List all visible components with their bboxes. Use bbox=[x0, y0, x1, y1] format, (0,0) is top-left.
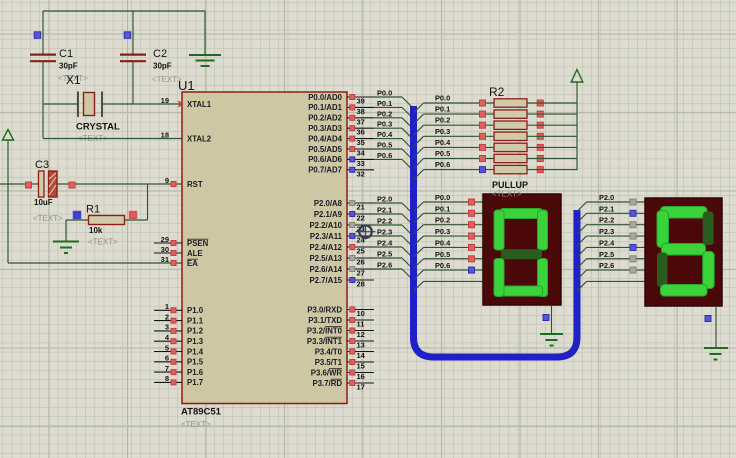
wire P2.5 bus to DS2 bbox=[577, 250, 645, 269]
U1 pin 23 (P2.2/A10) bbox=[309, 221, 374, 234]
svg-text:P2.4/A12: P2.4/A12 bbox=[309, 243, 342, 252]
DS1 segment c bbox=[538, 259, 548, 297]
svg-text:<TEXT>: <TEXT> bbox=[88, 238, 118, 247]
svg-text:P2.1/A9: P2.1/A9 bbox=[314, 210, 343, 219]
wire P2.2 bus to DS2 bbox=[577, 216, 645, 235]
svg-text:37: 37 bbox=[357, 117, 365, 126]
capacitor C2 (30pF) bbox=[120, 48, 182, 84]
wire R2 row 1 to VCC bbox=[527, 102, 577, 104]
capacitor C1 (30pF) bbox=[30, 48, 88, 83]
wire R1 to ground bbox=[66, 220, 89, 241]
svg-text:P2.0/A8: P2.0/A8 bbox=[314, 199, 343, 208]
ground (below DS2) bbox=[704, 306, 728, 360]
svg-text:C1: C1 bbox=[59, 48, 73, 60]
svg-text:P3.6/WR: P3.6/WR bbox=[311, 368, 343, 377]
svg-text:EA: EA bbox=[187, 259, 198, 268]
U1 pin 35 (P0.4/AD4) bbox=[308, 134, 374, 147]
svg-text:P2.0: P2.0 bbox=[377, 195, 392, 204]
7-segment display DS1 body bbox=[483, 194, 561, 305]
label R2 TEXT (over DS1) bbox=[492, 190, 522, 199]
cursor crosshair bbox=[356, 225, 376, 240]
pin square R2 row 2 left bbox=[480, 111, 486, 117]
svg-text:6: 6 bbox=[165, 354, 169, 363]
wire P2.6 U1 to bus bbox=[374, 261, 412, 280]
svg-text:P1.7: P1.7 bbox=[187, 378, 203, 387]
wire C2 branch bbox=[132, 11, 134, 104]
U1 pin 24 (P2.3/A11) bbox=[310, 232, 374, 245]
pin square R2 row 3 left bbox=[480, 122, 486, 128]
svg-text:11: 11 bbox=[357, 320, 365, 329]
svg-text:2: 2 bbox=[165, 312, 169, 321]
DS1 segment b bbox=[538, 210, 548, 250]
wire R2 row 7 to VCC bbox=[527, 169, 577, 171]
wire P2.4 bus to DS2 bbox=[577, 238, 645, 257]
wire RST tap to R1 bbox=[125, 184, 148, 220]
svg-text:31: 31 bbox=[161, 255, 169, 264]
svg-text:P3.5/T1: P3.5/T1 bbox=[315, 358, 343, 367]
U1 pin 3 (P1.2) bbox=[154, 323, 204, 336]
svg-text:27: 27 bbox=[357, 269, 365, 278]
wire P0.0 bus to R2 bbox=[414, 94, 495, 114]
wire P0.5 bus to DS1 bbox=[414, 250, 484, 269]
svg-text:17: 17 bbox=[357, 383, 365, 392]
svg-text:30: 30 bbox=[161, 245, 169, 254]
svg-text:P0.6: P0.6 bbox=[435, 261, 450, 270]
U1 pin 12 (P3.2/INT0) bbox=[307, 326, 374, 339]
svg-text:U1: U1 bbox=[178, 78, 195, 93]
bus (blue) bbox=[414, 106, 578, 357]
DS2 segment f bbox=[657, 211, 669, 248]
U1 pin 21 (P2.0/A8) bbox=[314, 199, 374, 212]
U1 pin 27 (P2.6/A14) bbox=[309, 265, 374, 278]
label AT89C51 bbox=[181, 407, 222, 418]
DS1 segment e bbox=[494, 259, 504, 297]
svg-text:P0.4/AD4: P0.4/AD4 bbox=[308, 134, 342, 143]
resistor R2 element 5 bbox=[494, 143, 527, 151]
wire P0.1 U1 to bus bbox=[374, 99, 412, 118]
U1 pin 1 (P1.0) bbox=[154, 302, 204, 315]
DS1 segment d bbox=[500, 286, 543, 296]
wire P0.0 bus to DS1 bbox=[414, 193, 484, 212]
svg-text:21: 21 bbox=[357, 203, 365, 212]
svg-text:PULLUP: PULLUP bbox=[492, 180, 528, 190]
label PULLUP bbox=[492, 180, 528, 190]
svg-text:P0.5/AD5: P0.5/AD5 bbox=[308, 145, 342, 154]
svg-text:P0.0: P0.0 bbox=[435, 193, 450, 202]
svg-text:P0.6: P0.6 bbox=[435, 160, 450, 169]
svg-text:9: 9 bbox=[165, 176, 169, 185]
svg-text:P0.4: P0.4 bbox=[435, 138, 451, 147]
U1 pin 18 (XTAL2) bbox=[161, 130, 212, 143]
svg-text:19: 19 bbox=[161, 96, 169, 105]
U1 pin 19 (XTAL1) bbox=[161, 96, 212, 109]
pin square R2 row 6 right bbox=[537, 156, 543, 162]
7-segment DS2 digit 5 bbox=[657, 207, 714, 297]
svg-text:P2.2/A10: P2.2/A10 bbox=[309, 221, 342, 230]
svg-text:<TEXT>: <TEXT> bbox=[33, 214, 63, 223]
resistor R2 element 2 bbox=[494, 110, 527, 118]
U1 pin 4 (P1.3) bbox=[154, 333, 204, 346]
svg-text:P2.5/A13: P2.5/A13 bbox=[309, 254, 342, 263]
wire P0.3 bus to DS1 bbox=[414, 227, 484, 246]
svg-text:P2.3/A11: P2.3/A11 bbox=[310, 232, 343, 241]
svg-text:C3: C3 bbox=[35, 159, 49, 171]
svg-text:P0.2: P0.2 bbox=[435, 116, 450, 125]
7-segment DS1 digit 0 bbox=[494, 209, 548, 297]
svg-text:14: 14 bbox=[357, 351, 366, 360]
U1 pin 33 (P0.6/AD6) bbox=[308, 155, 374, 168]
svg-text:32: 32 bbox=[357, 169, 365, 178]
wire VCC left vertical bbox=[7, 140, 9, 263]
svg-text:P2.3: P2.3 bbox=[377, 228, 392, 237]
wire XTAL1 net bbox=[43, 103, 182, 105]
wire P2.6 bus to DS2 bbox=[577, 261, 645, 280]
svg-text:R2: R2 bbox=[489, 85, 505, 99]
wire RST net bbox=[0, 183, 182, 185]
resistor R2 element 3 bbox=[494, 121, 527, 129]
IC U1 AT89C51 body bbox=[178, 78, 347, 404]
U1 pin 15 (P3.5/T1) bbox=[315, 358, 374, 371]
U1 pin 9 (RST) bbox=[165, 176, 203, 189]
svg-text:34: 34 bbox=[357, 149, 366, 158]
svg-text:10: 10 bbox=[357, 309, 365, 318]
svg-text:XTAL1: XTAL1 bbox=[187, 100, 212, 109]
pin square R1 right bbox=[129, 211, 138, 220]
wire P0.3 U1 to bus bbox=[374, 120, 412, 139]
capacitor C3 (10uF) bbox=[33, 159, 63, 223]
svg-text:XTAL2: XTAL2 bbox=[187, 134, 212, 143]
svg-text:P1.3: P1.3 bbox=[187, 337, 204, 346]
svg-text:3: 3 bbox=[165, 323, 169, 332]
7-segment display DS2 body bbox=[645, 198, 722, 306]
svg-text:P3.0/RXD: P3.0/RXD bbox=[307, 305, 342, 314]
wire top rail bbox=[43, 10, 205, 12]
wire P2.3 U1 to bus bbox=[374, 228, 412, 247]
pin square R2 row 1 right bbox=[537, 100, 543, 106]
svg-text:P2.3: P2.3 bbox=[599, 227, 614, 236]
wire P2.1 U1 to bus bbox=[374, 206, 412, 225]
svg-text:P0.3: P0.3 bbox=[435, 227, 450, 236]
svg-text:P0.0/AD0: P0.0/AD0 bbox=[308, 93, 342, 102]
pin square R2 row 1 left bbox=[480, 100, 486, 106]
wire R2 row 2 to VCC bbox=[527, 113, 577, 115]
wire R2 row 5 to VCC bbox=[527, 146, 577, 148]
svg-text:P0.2/AD2: P0.2/AD2 bbox=[308, 114, 342, 123]
U1 pin 7 (P1.6) bbox=[154, 364, 204, 377]
svg-text:P2.2: P2.2 bbox=[599, 216, 614, 225]
resistor R2 element 4 bbox=[494, 132, 527, 140]
U1 pin 8 (P1.7) bbox=[154, 374, 203, 387]
svg-text:P1.6: P1.6 bbox=[187, 368, 204, 377]
U1 pin 17 (P3.7/RD) bbox=[313, 379, 374, 392]
svg-text:P2.5: P2.5 bbox=[599, 250, 614, 259]
svg-text:5: 5 bbox=[165, 343, 169, 352]
crystal X1 bbox=[66, 73, 120, 143]
wire R2 row 4 to VCC bbox=[527, 135, 577, 137]
U1 pin 13 (P3.3/INT1) bbox=[307, 337, 374, 350]
svg-text:P2.4: P2.4 bbox=[377, 239, 393, 248]
wire P2.0 U1 to bus bbox=[374, 195, 412, 214]
U1 pin 28 (P2.7/A15) bbox=[309, 276, 374, 289]
svg-text:13: 13 bbox=[357, 341, 365, 350]
svg-text:P2.6: P2.6 bbox=[377, 261, 392, 270]
resistor R1 (10k) bbox=[86, 204, 125, 247]
wire P2.3 bus to DS2 bbox=[577, 227, 645, 246]
DS1 segment g bbox=[501, 249, 542, 259]
DS2 segment b bbox=[703, 212, 714, 246]
wire P0.5 U1 to bus bbox=[374, 141, 412, 160]
svg-text:P0.2: P0.2 bbox=[435, 216, 450, 225]
wire P2.4 U1 to bus bbox=[374, 239, 412, 258]
wire P0.6 U1 to bus bbox=[374, 151, 412, 170]
label R2 bbox=[489, 85, 505, 99]
svg-text:P0.5: P0.5 bbox=[377, 141, 392, 150]
wire P0.3 bus to R2 bbox=[414, 127, 495, 147]
svg-text:P2.1: P2.1 bbox=[377, 206, 392, 215]
wire P0.2 U1 to bus bbox=[374, 109, 412, 128]
svg-text:R1: R1 bbox=[86, 204, 100, 216]
U1 pin 14 (P3.4/T0) bbox=[315, 347, 374, 360]
U1 pin 25 (P2.4/A12) bbox=[309, 243, 374, 256]
svg-text:P2.1: P2.1 bbox=[599, 204, 614, 213]
svg-text:35: 35 bbox=[357, 138, 365, 147]
svg-text:28: 28 bbox=[357, 280, 365, 289]
pin square C3 left bbox=[26, 182, 32, 188]
svg-text:12: 12 bbox=[357, 330, 365, 339]
pin square C3 right bbox=[69, 182, 75, 188]
svg-text:P0.7/AD7: P0.7/AD7 bbox=[308, 166, 342, 175]
svg-text:P0.0: P0.0 bbox=[377, 89, 392, 98]
resistor R2 element 1 bbox=[494, 99, 527, 107]
U1 pin 31 (EA) bbox=[161, 255, 199, 268]
U1 pin 11 (P3.1/TXD) bbox=[308, 316, 374, 329]
DS2 segment e bbox=[657, 253, 668, 288]
svg-text:P2.4: P2.4 bbox=[599, 238, 615, 247]
wire R2 row 3 to VCC bbox=[527, 124, 577, 126]
svg-text:P2.6/A14: P2.6/A14 bbox=[309, 265, 342, 274]
svg-text:P0.5: P0.5 bbox=[435, 250, 450, 259]
svg-text:18: 18 bbox=[161, 130, 169, 139]
DS1 segment f bbox=[494, 210, 504, 250]
svg-text:<TEXT>: <TEXT> bbox=[181, 420, 211, 429]
svg-text:22: 22 bbox=[357, 214, 365, 223]
label U1 TEXT bbox=[181, 420, 211, 429]
U1 pin 29 (PSEN) bbox=[154, 235, 209, 248]
node below DS2 bbox=[705, 316, 711, 322]
svg-text:39: 39 bbox=[357, 97, 365, 106]
svg-text:P1.1: P1.1 bbox=[187, 316, 204, 325]
pin square R2 row 7 right bbox=[537, 167, 543, 173]
svg-text:P0.4: P0.4 bbox=[377, 130, 393, 139]
U1 pin 37 (P0.2/AD2) bbox=[308, 114, 374, 127]
svg-text:30pF: 30pF bbox=[153, 62, 172, 71]
svg-text:<TEXT>: <TEXT> bbox=[492, 190, 522, 199]
ground (below R1) bbox=[53, 242, 79, 254]
svg-text:P2.2: P2.2 bbox=[377, 217, 392, 226]
ground (top, crystal caps) bbox=[189, 11, 221, 66]
U1 pin 39 (P0.0/AD0) bbox=[308, 93, 374, 106]
svg-text:26: 26 bbox=[357, 258, 365, 267]
U1 pin 5 (P1.4) bbox=[154, 343, 204, 356]
pin square R2 row 6 left bbox=[480, 156, 486, 162]
U1 pin 30 (ALE) bbox=[154, 245, 203, 258]
svg-text:P0.3/AD3: P0.3/AD3 bbox=[308, 124, 342, 133]
svg-text:P0.1: P0.1 bbox=[435, 105, 450, 114]
svg-text:CRYSTAL: CRYSTAL bbox=[76, 122, 120, 133]
U1 pin 32 (P0.7/AD7) bbox=[308, 166, 374, 179]
wire P0.6 bus to DS1 bbox=[414, 261, 484, 280]
svg-text:P3.1/TXD: P3.1/TXD bbox=[308, 316, 342, 325]
wire P2.0 bus to DS2 bbox=[577, 193, 645, 212]
svg-text:10uF: 10uF bbox=[34, 198, 53, 207]
wire C1 branch bbox=[42, 11, 44, 139]
U1 pin 26 (P2.5/A13) bbox=[309, 254, 374, 267]
svg-text:1: 1 bbox=[165, 302, 169, 311]
wire common bus to DS1 bbox=[414, 281, 484, 291]
U1 pin 2 (P1.1) bbox=[154, 312, 204, 325]
svg-text:P0.5: P0.5 bbox=[435, 149, 450, 158]
wire P0.6 bus to R2 bbox=[414, 160, 495, 180]
svg-text:33: 33 bbox=[357, 159, 365, 168]
svg-text:30pF: 30pF bbox=[59, 62, 78, 71]
pin square R2 row 4 right bbox=[537, 133, 543, 139]
wire P2.2 U1 to bus bbox=[374, 217, 412, 236]
svg-text:AT89C51: AT89C51 bbox=[181, 407, 222, 418]
svg-text:P0.6/AD6: P0.6/AD6 bbox=[308, 155, 342, 164]
pin square R2 row 7 left bbox=[480, 167, 486, 173]
svg-text:10k: 10k bbox=[89, 226, 103, 235]
svg-text:P0.6: P0.6 bbox=[377, 151, 392, 160]
svg-text:P0.4: P0.4 bbox=[435, 238, 451, 247]
svg-text:P3.3/INT1: P3.3/INT1 bbox=[307, 337, 343, 346]
svg-text:P2.6: P2.6 bbox=[599, 261, 614, 270]
pin square R2 row 5 right bbox=[537, 144, 543, 150]
node at C2 top bbox=[124, 32, 131, 39]
svg-text:P1.4: P1.4 bbox=[187, 347, 204, 356]
svg-text:P1.5: P1.5 bbox=[187, 358, 204, 367]
wire P0.2 bus to DS1 bbox=[414, 216, 484, 235]
U1 pin 38 (P0.1/AD1) bbox=[308, 103, 374, 116]
resistor R2 element 6 bbox=[494, 154, 527, 162]
svg-text:29: 29 bbox=[161, 235, 169, 244]
DS2 segment d bbox=[661, 285, 708, 297]
svg-text:C2: C2 bbox=[153, 48, 167, 60]
power +5V arrow (right) bbox=[571, 70, 583, 83]
wire R2 row 6 to VCC bbox=[527, 158, 577, 160]
svg-text:P0.2: P0.2 bbox=[377, 109, 392, 118]
svg-text:P0.3: P0.3 bbox=[435, 127, 450, 136]
U1 pin 10 (P3.0/RXD) bbox=[307, 305, 374, 318]
svg-text:P2.7/A15: P2.7/A15 bbox=[309, 276, 342, 285]
svg-text:ALE: ALE bbox=[187, 249, 203, 258]
svg-text:P0.1/AD1: P0.1/AD1 bbox=[308, 103, 342, 112]
svg-text:7: 7 bbox=[165, 364, 169, 373]
DS2 segment a bbox=[661, 207, 708, 219]
wire P0.5 bus to R2 bbox=[414, 149, 495, 169]
svg-text:P1.2: P1.2 bbox=[187, 327, 204, 336]
wire to EA pin bbox=[8, 262, 182, 264]
wire P2.1 bus to DS2 bbox=[577, 204, 645, 223]
U1 pin 16 (P3.6/WR) bbox=[311, 368, 374, 381]
svg-text:P3.7/RD: P3.7/RD bbox=[313, 379, 343, 388]
U1 pin 36 (P0.3/AD3) bbox=[308, 124, 374, 137]
ground (below DS1) bbox=[540, 305, 563, 346]
svg-text:P0.0: P0.0 bbox=[435, 94, 450, 103]
svg-text:RST: RST bbox=[187, 180, 203, 189]
svg-text:16: 16 bbox=[357, 372, 365, 381]
svg-text:P3.4/T0: P3.4/T0 bbox=[315, 347, 343, 356]
svg-text:P0.1: P0.1 bbox=[377, 99, 392, 108]
power +5V arrow (left) bbox=[3, 130, 14, 141]
junction node at R1 left bbox=[73, 211, 82, 220]
wire P0.4 bus to DS1 bbox=[414, 238, 484, 257]
wire P0.0 U1 to bus bbox=[374, 89, 412, 108]
svg-text:P0.3: P0.3 bbox=[377, 120, 392, 129]
wire VCC R2 vertical bbox=[576, 82, 578, 170]
U1 pin 34 (P0.5/AD5) bbox=[308, 145, 374, 158]
wire P0.2 bus to R2 bbox=[414, 116, 495, 136]
wire P0.4 U1 to bus bbox=[374, 130, 412, 149]
resistor R2 element 7 bbox=[494, 165, 527, 173]
DS2 segment c bbox=[703, 252, 715, 289]
wire P2.5 U1 to bus bbox=[374, 250, 412, 269]
U1 pin 6 (P1.5) bbox=[154, 354, 204, 367]
svg-text:8: 8 bbox=[165, 374, 169, 383]
svg-text:P2.5: P2.5 bbox=[377, 250, 392, 259]
wire P0.4 bus to R2 bbox=[414, 138, 495, 158]
pin square R2 row 4 left bbox=[480, 133, 486, 139]
wire common bus to DS2 bbox=[577, 281, 645, 291]
wire P0.1 bus to R2 bbox=[414, 105, 495, 125]
svg-text:P0.1: P0.1 bbox=[435, 204, 450, 213]
svg-text:P2.0: P2.0 bbox=[599, 193, 614, 202]
wire P0.1 bus to DS1 bbox=[414, 204, 484, 223]
node at C1 top bbox=[34, 32, 41, 39]
U1 pin 22 (P2.1/A9) bbox=[314, 210, 374, 223]
svg-text:X1: X1 bbox=[66, 73, 81, 87]
pin square R2 row 2 right bbox=[537, 111, 543, 117]
svg-text:36: 36 bbox=[357, 128, 365, 137]
DS2 segment g bbox=[662, 244, 706, 256]
svg-text:25: 25 bbox=[357, 247, 365, 256]
pin square R2 row 5 left bbox=[480, 144, 486, 150]
svg-text:38: 38 bbox=[357, 107, 365, 116]
pin square R2 row 3 right bbox=[537, 122, 543, 128]
svg-text:PSEN: PSEN bbox=[187, 239, 209, 248]
svg-text:15: 15 bbox=[357, 362, 365, 371]
node below DS1 bbox=[543, 315, 549, 321]
wire XTAL2 net bbox=[43, 138, 182, 140]
svg-text:P3.2/INT0: P3.2/INT0 bbox=[307, 326, 343, 335]
DS1 segment a bbox=[500, 209, 543, 219]
svg-text:P1.0: P1.0 bbox=[187, 306, 204, 315]
